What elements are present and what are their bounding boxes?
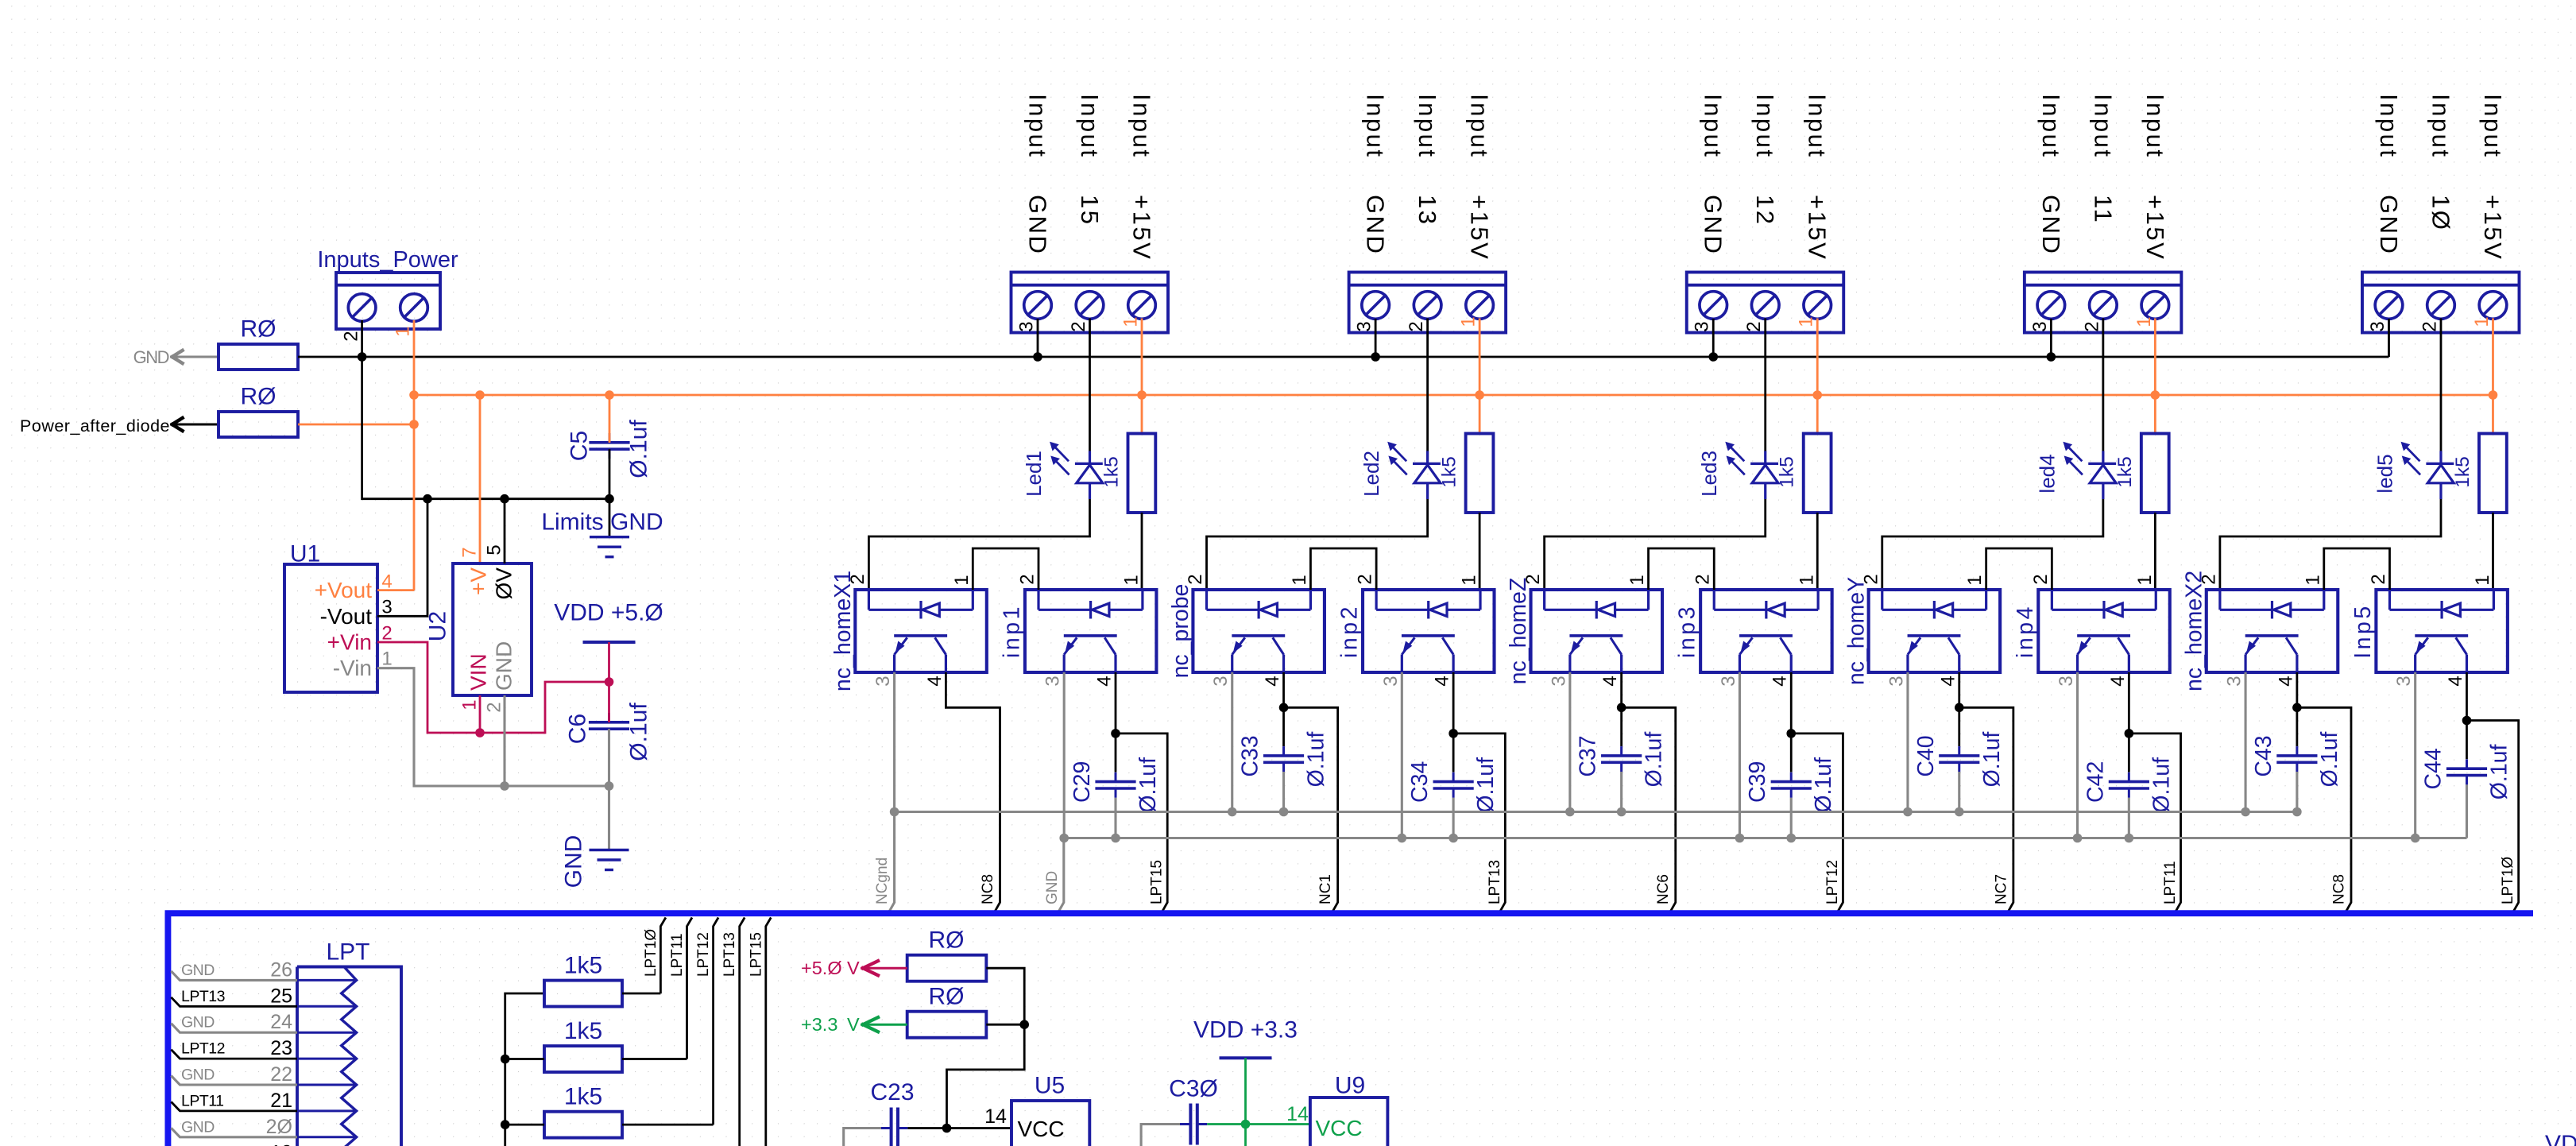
junction pin1/orange bus bbox=[2151, 390, 2160, 400]
capacitor C39 bbox=[1790, 734, 1793, 772]
svg-text:Inputs_Power: Inputs_Power bbox=[317, 247, 458, 273]
svg-text:C33: C33 bbox=[1238, 735, 1263, 776]
wire nc pin1 to inp pin2 bbox=[1649, 548, 1715, 590]
svg-text:+15V: +15V bbox=[1466, 195, 1494, 261]
svg-text:Input: Input bbox=[2089, 94, 2117, 158]
junction inp pin3/bus bbox=[1735, 834, 1745, 843]
wire LED to nc opto pin2 bbox=[1207, 499, 1428, 590]
svg-text:C23: C23 bbox=[870, 1079, 914, 1105]
resistor R0 (GND series) bbox=[219, 344, 298, 370]
junction cap/NCgnd bus bbox=[1279, 807, 1289, 817]
wire U1 -Vout to rail bbox=[377, 499, 427, 617]
svg-text:Ø.1uf: Ø.1uf bbox=[2317, 732, 2342, 788]
junction cap/NCgnd bus bbox=[1955, 807, 1964, 817]
svg-text:+15V: +15V bbox=[2479, 195, 2507, 261]
svg-text:Power_after_diode: Power_after_diode bbox=[20, 416, 170, 436]
svg-text:3: 3 bbox=[2224, 676, 2245, 686]
svg-text:2: 2 bbox=[1355, 574, 1376, 584]
svg-text:4: 4 bbox=[1937, 676, 1959, 686]
wire 1k5 left bbox=[505, 1124, 544, 1126]
wire NCgnd drop to border bbox=[889, 812, 895, 912]
svg-text:3: 3 bbox=[1210, 676, 1232, 686]
svg-text:C37: C37 bbox=[1576, 735, 1601, 776]
svg-text:C44: C44 bbox=[2420, 748, 2446, 789]
svg-text:19: 19 bbox=[270, 1142, 292, 1146]
wire nc pin3 to NCgnd bus bbox=[1231, 672, 1233, 812]
svg-text:GND: GND bbox=[181, 1118, 215, 1136]
svg-text:LPT: LPT bbox=[326, 939, 369, 966]
svg-text:1k5: 1k5 bbox=[1777, 456, 1798, 488]
connector Input group 1 bbox=[1011, 273, 1169, 333]
wire LPT1Ø drop bbox=[660, 918, 666, 994]
LED Led1 bbox=[1089, 319, 1091, 451]
svg-text:1Ø: 1Ø bbox=[2427, 195, 2454, 231]
junction pin3/GND bus bbox=[1371, 352, 1380, 362]
resistor 1k5 #2 (bottom) bbox=[544, 1046, 622, 1072]
wire 1k5 #3 right bbox=[622, 1124, 714, 1126]
svg-text:LPT15: LPT15 bbox=[1149, 860, 1166, 904]
svg-text:RØ: RØ bbox=[241, 384, 277, 410]
svg-text:VDD +5.Ø: VDD +5.Ø bbox=[554, 600, 663, 626]
IC U5 bbox=[1011, 1101, 1089, 1146]
junction pin3/GND bus bbox=[1033, 352, 1042, 362]
LED Led3 bbox=[1764, 319, 1766, 451]
svg-text:led5: led5 bbox=[2373, 454, 2396, 493]
svg-text:GND: GND bbox=[2375, 195, 2403, 255]
junction left rail bbox=[501, 1120, 510, 1129]
wire inp pin4 to LPT drop bbox=[2466, 672, 2518, 912]
svg-text:23: 23 bbox=[270, 1037, 292, 1059]
resistor R0 (+5.0) bbox=[907, 955, 987, 981]
svg-text:GND: GND bbox=[181, 1014, 215, 1032]
junction rail/0V bbox=[500, 494, 509, 504]
svg-text:GND: GND bbox=[181, 962, 215, 979]
svg-text:4: 4 bbox=[1262, 676, 1283, 686]
wire inp pin3 to GND bus bbox=[2076, 672, 2079, 838]
wire LPT12 drop bbox=[714, 918, 719, 1125]
LPT pin 26 (GND) bbox=[297, 979, 357, 981]
svg-text:NC7: NC7 bbox=[1993, 874, 2009, 904]
svg-text:Input: Input bbox=[1804, 94, 1831, 158]
svg-text:nc_homeZ: nc_homeZ bbox=[1506, 578, 1531, 685]
wire nc pin4 to drop bbox=[2297, 672, 2351, 912]
svg-text:-Vout: -Vout bbox=[320, 604, 373, 629]
svg-text:26: 26 bbox=[270, 958, 292, 981]
svg-text:Inp5: Inp5 bbox=[2350, 603, 2376, 658]
svg-text:Ø.1uf: Ø.1uf bbox=[1642, 732, 1667, 788]
wire nc pin3 to NCgnd bus bbox=[1906, 672, 1909, 812]
wire nc pin4 to drop bbox=[1959, 672, 2013, 912]
junction rail/-Vout bbox=[423, 494, 432, 504]
connector Input group 2 bbox=[1349, 273, 1507, 333]
wire GND drop to border bbox=[1058, 838, 1064, 912]
svg-text:3: 3 bbox=[381, 597, 392, 618]
sheet border bbox=[165, 913, 2534, 1146]
svg-text:1: 1 bbox=[2302, 575, 2323, 585]
svg-text:GND: GND bbox=[561, 835, 587, 889]
junction nc pin3/bus bbox=[890, 807, 899, 817]
svg-text:Input: Input bbox=[1076, 94, 1104, 158]
svg-text:1: 1 bbox=[1289, 575, 1310, 585]
junction pin1/orange bus bbox=[1475, 390, 1484, 400]
svg-text:3: 3 bbox=[1886, 676, 1907, 686]
svg-text:GND: GND bbox=[1044, 871, 1061, 904]
junction nc pin3/bus bbox=[1903, 807, 1913, 817]
svg-text:Input: Input bbox=[2141, 94, 2169, 158]
svg-text:3: 3 bbox=[872, 676, 894, 686]
resistor 1k5 (group 4) bbox=[2141, 434, 2169, 513]
svg-text:U1: U1 bbox=[290, 541, 320, 567]
svg-text:3: 3 bbox=[1042, 676, 1064, 686]
svg-text:C29: C29 bbox=[1069, 761, 1095, 803]
svg-text:2: 2 bbox=[1185, 574, 1206, 584]
connector Inputs_Power bbox=[336, 273, 440, 329]
svg-text:GND: GND bbox=[1024, 195, 1052, 255]
capacitor C43 bbox=[2296, 707, 2298, 746]
junction inp pin4/capacitor bbox=[2462, 716, 2472, 726]
svg-text:Input: Input bbox=[2375, 94, 2403, 158]
svg-text:+Vin: +Vin bbox=[327, 630, 372, 655]
wire nc pin1 to inp pin2 bbox=[1986, 548, 2052, 590]
svg-text:Ø.1uf: Ø.1uf bbox=[1811, 757, 1836, 813]
svg-text:+V: +V bbox=[466, 567, 491, 595]
wire LED to nc opto pin2 bbox=[1882, 499, 2103, 590]
wire LED to nc opto pin2 bbox=[1545, 499, 1766, 590]
svg-text:+Vout: +Vout bbox=[315, 578, 373, 602]
svg-text:Ø.1uf: Ø.1uf bbox=[626, 420, 652, 478]
svg-text:-Vin: -Vin bbox=[333, 656, 372, 680]
capacitor C29 bbox=[1115, 734, 1117, 772]
resistor 1k5 (group 5) bbox=[2479, 434, 2507, 513]
svg-text:2: 2 bbox=[2368, 574, 2389, 584]
svg-text:U5: U5 bbox=[1035, 1073, 1065, 1099]
svg-text:3: 3 bbox=[1380, 676, 1402, 686]
svg-text:GND: GND bbox=[1700, 195, 1727, 255]
svg-text:nc_probe: nc_probe bbox=[1168, 584, 1193, 679]
svg-text:LPT12: LPT12 bbox=[181, 1040, 225, 1058]
svg-text:1: 1 bbox=[2133, 316, 2155, 327]
svg-text:C6: C6 bbox=[565, 714, 591, 744]
wire 1k5 #1 right bbox=[622, 993, 660, 995]
junction inp pin4/capacitor bbox=[1449, 729, 1458, 738]
svg-text:4: 4 bbox=[1094, 676, 1116, 686]
svg-text:VDD: VDD bbox=[2545, 1131, 2576, 1146]
svg-text:Input: Input bbox=[1466, 94, 1494, 158]
junction cap/GND bus bbox=[1449, 834, 1458, 843]
svg-text:1: 1 bbox=[1458, 316, 1479, 327]
wire nc pin4 to drop bbox=[1622, 672, 1676, 912]
svg-text:Limits GND: Limits GND bbox=[541, 509, 663, 536]
svg-text:+15V: +15V bbox=[2141, 195, 2169, 261]
svg-text:15: 15 bbox=[1076, 195, 1104, 226]
svg-text:1k5: 1k5 bbox=[564, 1084, 602, 1110]
svg-text:3: 3 bbox=[2029, 321, 2051, 331]
wire pin1 to resistor bbox=[1816, 319, 1819, 434]
svg-text:2: 2 bbox=[381, 623, 392, 645]
svg-text:2: 2 bbox=[1068, 321, 1089, 331]
wire Inputs_Power pin1 down bbox=[413, 320, 416, 590]
svg-text:2: 2 bbox=[2198, 574, 2219, 584]
optocoupler nc_homeZ bbox=[1531, 590, 1663, 672]
optocoupler nc_homeY bbox=[1869, 590, 2001, 672]
wire pin3 to GND bus bbox=[1375, 319, 1377, 357]
wire R0 +3.3 right bbox=[986, 1024, 1024, 1026]
svg-text:Ø.1uf: Ø.1uf bbox=[2486, 744, 2512, 799]
svg-text:NC8: NC8 bbox=[2330, 874, 2347, 904]
svg-text:1: 1 bbox=[2471, 316, 2493, 327]
junction VDD stem bbox=[605, 677, 614, 687]
svg-text:1: 1 bbox=[1459, 575, 1480, 585]
junction nc pin4/capacitor bbox=[2292, 703, 2302, 713]
svg-text:2: 2 bbox=[2081, 321, 2102, 331]
IC U1 bbox=[284, 564, 377, 692]
connector Input group 5 bbox=[2362, 273, 2520, 333]
svg-text:V: V bbox=[847, 1014, 860, 1035]
wire nc pin3 to NCgnd bus bbox=[893, 672, 895, 812]
svg-text:Ø.1uf: Ø.1uf bbox=[626, 703, 652, 761]
svg-text:Led2: Led2 bbox=[1360, 451, 1383, 497]
svg-text:2: 2 bbox=[2030, 574, 2052, 584]
svg-text:1: 1 bbox=[1120, 316, 1142, 327]
wire LED to nc opto pin2 bbox=[2220, 499, 2441, 590]
svg-text:22: 22 bbox=[270, 1063, 292, 1086]
optocoupler nc_probe bbox=[1193, 590, 1325, 672]
svg-text:nc_homeX2: nc_homeX2 bbox=[2181, 571, 2207, 691]
svg-text:5: 5 bbox=[484, 544, 505, 555]
svg-text:3: 3 bbox=[2056, 676, 2077, 686]
junction R0 outputs bbox=[1019, 1020, 1029, 1029]
svg-text:4: 4 bbox=[2107, 676, 2129, 686]
wire resistor to opto pin1 bbox=[2492, 513, 2494, 590]
wire pin1 to resistor bbox=[1141, 319, 1143, 434]
capacitor C42 bbox=[2128, 734, 2130, 772]
wire LPT15 drop bbox=[766, 918, 772, 1146]
svg-text:Input: Input bbox=[2479, 94, 2507, 158]
wire inp pin4 to LPT drop bbox=[1453, 672, 1505, 912]
wire LED to nc opto pin2 bbox=[868, 499, 1089, 590]
resistor R0 (+3.3) bbox=[907, 1012, 987, 1038]
svg-text:2: 2 bbox=[1743, 321, 1765, 331]
wire nc pin4 to drop bbox=[1284, 672, 1338, 912]
svg-text:inp3: inp3 bbox=[1675, 604, 1700, 658]
svg-text:2: 2 bbox=[1692, 574, 1714, 584]
wire pin1 to resistor bbox=[2492, 319, 2494, 434]
svg-text:1: 1 bbox=[381, 648, 392, 670]
IC U9 bbox=[1310, 1098, 1388, 1146]
svg-text:4: 4 bbox=[924, 676, 946, 686]
svg-text:Input: Input bbox=[2427, 94, 2454, 158]
junction gray/C6 bbox=[605, 781, 614, 791]
resistor R0 (power series) bbox=[219, 412, 298, 437]
junction nc pin4/capacitor bbox=[1279, 703, 1289, 713]
wire U1 +Vin net bbox=[377, 642, 609, 733]
svg-text:ØV: ØV bbox=[492, 567, 516, 600]
junction inp pin4/capacitor bbox=[1786, 729, 1796, 738]
svg-text:2: 2 bbox=[341, 331, 362, 341]
svg-text:LPT1Ø: LPT1Ø bbox=[2500, 857, 2516, 904]
svg-text:LPT1Ø: LPT1Ø bbox=[643, 929, 659, 977]
svg-text:GND: GND bbox=[2037, 195, 2065, 255]
wire U1 -Vin gray net bbox=[377, 668, 609, 786]
svg-text:+15V: +15V bbox=[1128, 195, 1156, 261]
wire pin1 to resistor bbox=[1479, 319, 1481, 434]
capacitor C23 bbox=[844, 1129, 881, 1146]
junction left rail bbox=[501, 1055, 510, 1064]
junction cap/GND bus bbox=[1786, 834, 1796, 843]
svg-text:GND: GND bbox=[181, 1067, 215, 1084]
svg-text:1: 1 bbox=[2134, 575, 2156, 585]
wire LPT11 drop bbox=[687, 918, 693, 1059]
svg-text:GND: GND bbox=[133, 347, 169, 367]
LED led5 bbox=[2440, 319, 2443, 451]
svg-text:3: 3 bbox=[1354, 321, 1375, 331]
svg-text:nc_homeY: nc_homeY bbox=[1843, 577, 1869, 685]
svg-text:LPT11: LPT11 bbox=[2162, 861, 2179, 904]
svg-text:inp4: inp4 bbox=[2013, 604, 2038, 658]
svg-text:3: 3 bbox=[2367, 321, 2388, 331]
junction nc pin3/bus bbox=[1228, 807, 1237, 817]
wire pin3 to GND bus bbox=[2050, 319, 2052, 357]
svg-text:21: 21 bbox=[270, 1090, 292, 1112]
svg-text:Led3: Led3 bbox=[1697, 451, 1721, 497]
optocoupler inp3 bbox=[1700, 590, 1832, 672]
svg-text:11: 11 bbox=[2089, 195, 2117, 224]
svg-text:C43: C43 bbox=[2251, 735, 2276, 776]
svg-text:1: 1 bbox=[1626, 575, 1648, 585]
svg-text:Ø.1uf: Ø.1uf bbox=[1135, 757, 1161, 813]
wire resistor to opto pin1 bbox=[1141, 513, 1143, 590]
svg-text:Input: Input bbox=[2037, 94, 2065, 158]
wire pin3 to GND bus bbox=[1712, 319, 1715, 357]
wire +5.0 arrow bbox=[861, 967, 907, 970]
junction inp pin3/bus bbox=[2073, 834, 2083, 843]
ground Limits GND bbox=[609, 499, 611, 537]
optocoupler inp4 bbox=[2038, 590, 2170, 672]
svg-text:RØ: RØ bbox=[929, 984, 965, 1010]
LPT pin 2Ø (GND) bbox=[297, 1136, 357, 1138]
svg-text:2: 2 bbox=[1017, 574, 1039, 584]
wire orange power bus bbox=[414, 394, 2493, 397]
svg-text:VCC: VCC bbox=[1017, 1117, 1064, 1141]
svg-text:3: 3 bbox=[1548, 676, 1569, 686]
svg-text:4: 4 bbox=[1599, 676, 1621, 686]
IC U2 bbox=[453, 563, 532, 695]
wire inp pin4 to LPT drop bbox=[1116, 672, 1167, 912]
svg-text:1k5: 1k5 bbox=[1101, 456, 1123, 488]
junction cap/GND bus bbox=[1111, 834, 1120, 843]
junction inp pin4/capacitor bbox=[2125, 729, 2134, 738]
svg-text:1k5: 1k5 bbox=[564, 953, 602, 979]
wire pin3 to GND bus bbox=[2388, 319, 2390, 357]
svg-text:VCC: VCC bbox=[1315, 1116, 1362, 1140]
wire nc pin1 to inp pin2 bbox=[2324, 548, 2390, 590]
junction rail/C5 bbox=[605, 494, 614, 504]
svg-text:1: 1 bbox=[1797, 575, 1818, 585]
svg-text:3: 3 bbox=[2393, 676, 2415, 686]
svg-text:C5: C5 bbox=[567, 431, 593, 461]
svg-text:Ø.1uf: Ø.1uf bbox=[1473, 757, 1499, 813]
svg-text:LPT13: LPT13 bbox=[181, 988, 225, 1005]
capacitor C40 bbox=[1958, 707, 1960, 746]
svg-text:1: 1 bbox=[2472, 575, 2493, 585]
LPT pin 23 (LPT12) bbox=[297, 1058, 357, 1060]
LPT pin 25 (LPT13) bbox=[297, 1005, 357, 1008]
wire R0 outputs to C23 net bbox=[947, 968, 1025, 1128]
optocoupler nc_homeX1 bbox=[855, 590, 987, 672]
optocoupler inp2 bbox=[1363, 590, 1495, 672]
wire resistor to opto pin1 bbox=[1479, 513, 1481, 590]
svg-text:Ø.1uf: Ø.1uf bbox=[1304, 732, 1329, 788]
svg-text:3: 3 bbox=[1718, 676, 1739, 686]
svg-text:led4: led4 bbox=[2035, 454, 2059, 493]
wire inp pin4 to LPT drop bbox=[1791, 672, 1843, 912]
wire NCgnd gray bus bbox=[895, 811, 2297, 813]
svg-text:25: 25 bbox=[270, 985, 292, 1007]
wire Inputs_Power pin2 to rail bbox=[362, 320, 609, 499]
wire LPT13 drop bbox=[740, 918, 745, 1146]
svg-text:14: 14 bbox=[1286, 1103, 1309, 1125]
svg-text:+15V: +15V bbox=[1804, 195, 1831, 261]
capacitor C34 bbox=[1452, 734, 1455, 772]
wire U2 VIN down bbox=[479, 695, 482, 733]
svg-text:Input: Input bbox=[1024, 94, 1052, 158]
wire 1k5 left bbox=[505, 1058, 544, 1060]
junction cap/NCgnd bus bbox=[2292, 807, 2302, 817]
svg-text:+3.3: +3.3 bbox=[801, 1014, 837, 1035]
svg-text:GND: GND bbox=[1362, 195, 1390, 255]
svg-text:1: 1 bbox=[951, 575, 973, 585]
junction nc pin3/bus bbox=[2241, 807, 2250, 817]
wire U1 +Vout to orange bbox=[377, 589, 414, 591]
resistor 1k5 #1 (bottom) bbox=[544, 981, 622, 1007]
wire nc pin1 to inp pin2 bbox=[1310, 548, 1376, 590]
wire C23 to U5 VCC bbox=[907, 1127, 1011, 1129]
svg-text:C3Ø: C3Ø bbox=[1169, 1076, 1218, 1102]
svg-text:NC8: NC8 bbox=[980, 874, 996, 904]
wire resistor to opto pin1 bbox=[2154, 513, 2156, 590]
junction pin1/orange bus bbox=[1137, 390, 1147, 400]
svg-text:LPT13: LPT13 bbox=[721, 932, 738, 977]
svg-text:U9: U9 bbox=[1335, 1073, 1365, 1099]
LPT pin 22 (GND) bbox=[297, 1084, 357, 1086]
junction pin1/R0 wire bbox=[409, 420, 419, 429]
svg-text:NCgnd: NCgnd bbox=[874, 858, 891, 904]
svg-text:1k5: 1k5 bbox=[564, 1018, 602, 1044]
wire Power_after_diode arrow bbox=[170, 424, 219, 426]
wire GND bus bbox=[298, 356, 2388, 358]
wire pin1 to resistor bbox=[2154, 319, 2156, 434]
junction cap/GND bus bbox=[2125, 834, 2134, 843]
wire resistor to opto pin1 bbox=[1816, 513, 1819, 590]
wire nc pin3 to NCgnd bus bbox=[1568, 672, 1571, 812]
svg-text:LPT11: LPT11 bbox=[669, 933, 686, 977]
svg-text:4: 4 bbox=[2445, 676, 2466, 686]
svg-text:+5.Ø: +5.Ø bbox=[801, 958, 842, 978]
junction inp pin3/bus bbox=[1398, 834, 1407, 843]
svg-text:1k5: 1k5 bbox=[2114, 456, 2136, 488]
wire inp pin3 to GND bus bbox=[2414, 672, 2416, 838]
svg-text:13: 13 bbox=[1414, 195, 1441, 226]
wire inp pin4 to LPT drop bbox=[2129, 672, 2180, 912]
connector Input group 4 bbox=[2025, 273, 2182, 333]
svg-text:C40: C40 bbox=[1913, 735, 1939, 776]
svg-text:inp2: inp2 bbox=[1337, 604, 1363, 658]
connector Input group 3 bbox=[1687, 273, 1844, 333]
junction orange bus/C5 bbox=[605, 390, 614, 400]
svg-text:3: 3 bbox=[1016, 321, 1038, 331]
junction nc pin3/bus bbox=[1565, 807, 1575, 817]
wire inp pin3 to GND bus bbox=[1739, 672, 1741, 838]
